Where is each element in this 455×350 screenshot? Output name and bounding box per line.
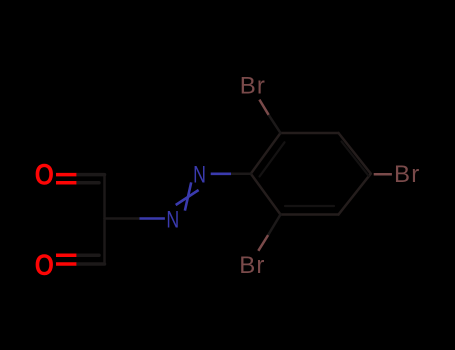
- carbonyl O1 double bond (red halves): [56, 175, 76, 264]
- carbon chain skeleton (dark): [76, 115, 280, 264]
- wire ring edge VBL-VL: [251, 174, 281, 215]
- wire N2-ring bond nitrogen half: [211, 173, 231, 176]
- wire O2=C3 main line: [56, 262, 76, 266]
- svg-text:O: O: [35, 248, 54, 282]
- svg-text:Br: Br: [240, 73, 266, 100]
- wire C2-N1 bond nitrogen half: [140, 217, 165, 220]
- wire ring inner double bond 1: [260, 142, 285, 176]
- wire C=O bottom main carbon half: [76, 262, 104, 266]
- benzene ring C1a-C6a (dark skeleton): [251, 133, 371, 215]
- wire ring inner double bond 3: [285, 205, 334, 207]
- wire ring edge VBR-VBL: [281, 213, 339, 216]
- wire Br bottom bond carbon half: [268, 215, 280, 236]
- wire ring edge VTL-VTR: [281, 132, 339, 135]
- wire C=O top inner carbon half: [76, 181, 99, 185]
- bromine bond stubs (maroon halves): [258, 100, 392, 251]
- svg-text:N: N: [193, 162, 206, 188]
- wire O1=C1 main line: [56, 173, 76, 177]
- wire C1-C2-C3 vertical chain: [103, 175, 106, 264]
- wire O1=C1 inner line: [56, 181, 76, 185]
- wire ring inner double bond 2: [342, 142, 369, 176]
- wire C2-N1 bond carbon half: [105, 217, 140, 220]
- wire ring edge VR-VBR: [339, 174, 371, 215]
- svg-text:N: N: [166, 207, 179, 233]
- svg-text:Br: Br: [239, 252, 265, 279]
- wire N2-ring bond carbon half: [231, 172, 251, 175]
- wire ring-Br top bond bromine half: [259, 100, 268, 115]
- wire N1=N2 crossed line steep: [185, 182, 191, 210]
- svg-text:Br: Br: [394, 161, 420, 188]
- azo N=N and C-N bonds (blue): [140, 174, 232, 219]
- wire Br top bond carbon half: [269, 115, 281, 133]
- svg-text:O: O: [35, 157, 54, 191]
- wire N1=N2 crossed line shallow: [176, 190, 199, 205]
- wire ring edge VTR-VR: [339, 133, 371, 174]
- wire ring-Br bottom bond bromine half: [258, 235, 268, 251]
- wire ring-Br right bond bromine half: [374, 173, 392, 176]
- wire O2=C3 inner line: [56, 253, 76, 257]
- wire ring edge VL-VTL: [251, 133, 281, 174]
- wire C=O top main carbon half: [76, 173, 104, 177]
- wire C=O bottom inner carbon half: [76, 253, 99, 257]
